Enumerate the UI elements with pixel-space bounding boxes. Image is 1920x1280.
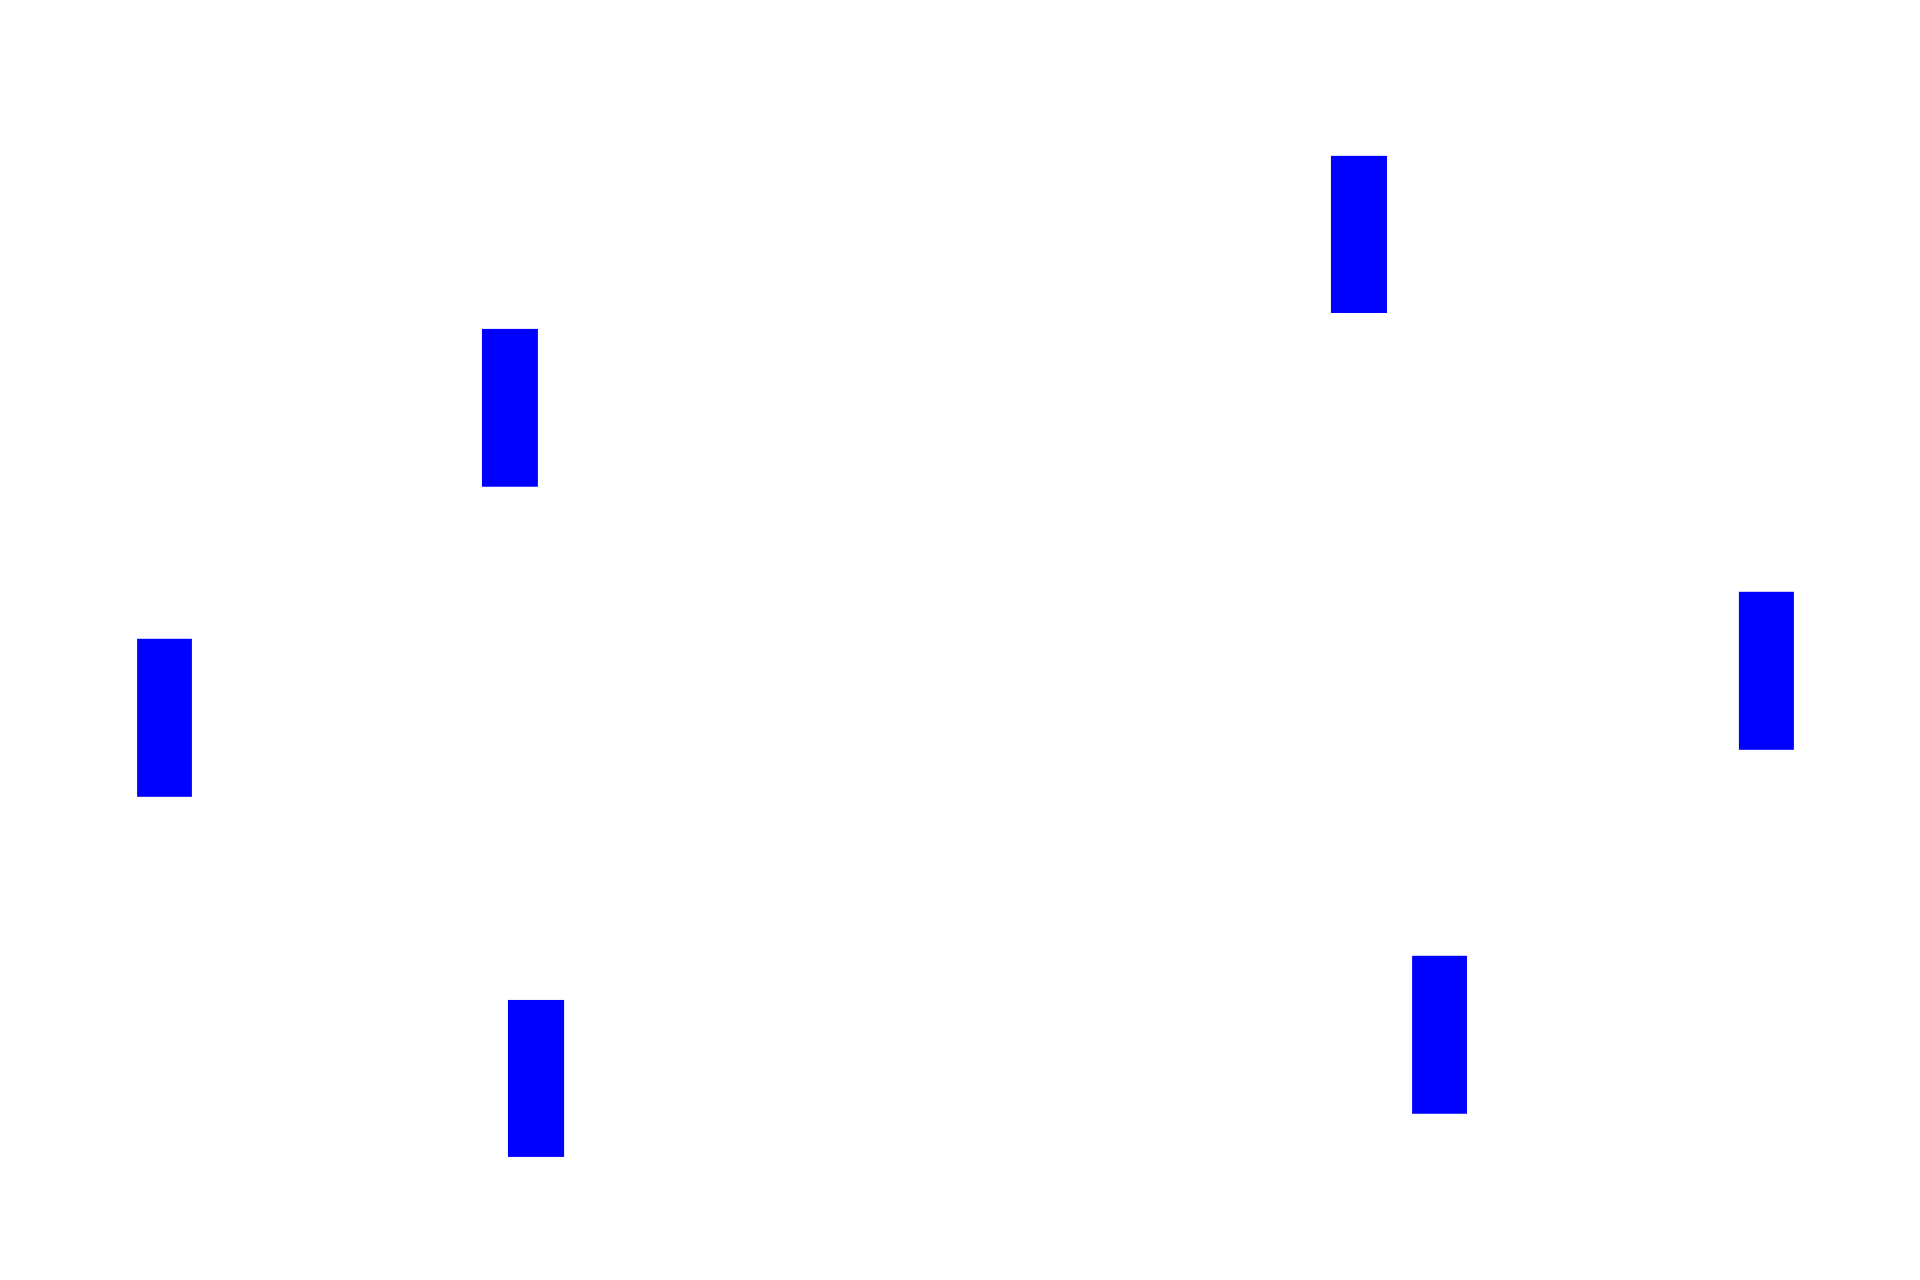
blue bar 3 (middle left)	[137, 639, 192, 797]
blue bar 5 (lower left-centre)	[508, 1000, 564, 1157]
blue bar 4 (middle right)	[1739, 592, 1794, 750]
blue bar 1 (top centre-right)	[1331, 156, 1387, 313]
blue bar 2 (upper left-centre)	[482, 329, 538, 487]
blue bar 6 (lower centre-right)	[1412, 956, 1467, 1114]
